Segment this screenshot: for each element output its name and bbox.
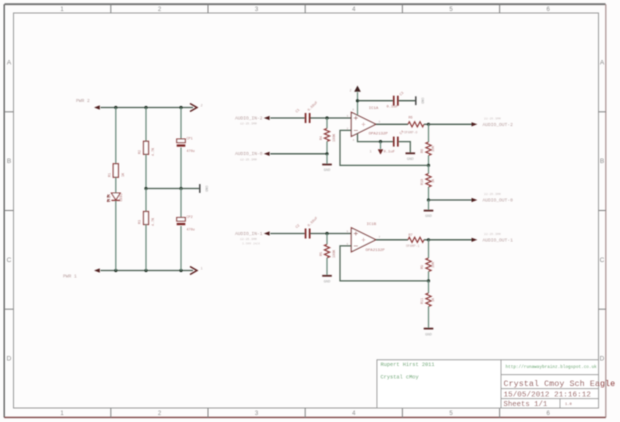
wire LED1 to negative rail [115,201,117,271]
wire bias node B to R5 [326,234,328,245]
svg-text:1: 1 [379,121,381,124]
wire feedback A to -input [340,130,429,165]
wire input A to C1 [270,117,304,119]
svg-text:AUDIO_OUT-0: AUDIO_OUT-0 [483,198,514,204]
svg-text:1: 1 [201,268,203,272]
junction V+ bypass tap [356,99,359,102]
junction output node B [427,238,430,241]
svg-text:R3: R3 [139,220,143,224]
wire R3 to negative rail [145,225,147,271]
resistor R1 [109,164,127,178]
wire feedback B to -input [340,246,429,281]
ground GND divider B [424,329,434,338]
wire bias node to R4 [326,118,328,128]
svg-text:R8: R8 [421,149,425,153]
ground GND divider A [424,211,434,220]
ground GND input B [322,276,332,285]
wire virtual ground node to CP2 [180,189,182,218]
svg-text:R1: R1 [109,173,113,177]
svg-text:470u: 470u [187,150,195,154]
capacitor CP2 470u [177,216,195,233]
svg-text:22-25.3MM: 22-25.3MM [484,232,501,236]
net label PWR 1 (negative rail) [63,268,100,279]
capacitor C1 0.68uF [295,101,319,123]
svg-text:Crystal Cmoy Sch Eagle: Crystal Cmoy Sch Eagle [504,379,616,389]
junction input B bias node [325,232,328,235]
wire CP1 branch upper [180,108,182,140]
junction output node A [427,123,430,126]
wire op-amp A V- pin down [358,133,393,141]
wire C2 to op-amp B +input [310,233,351,235]
svg-text:7: 7 [379,236,381,239]
svg-text:OPAMP-0: OPAMP-0 [404,130,417,134]
ground VGND bypass A [416,96,424,105]
svg-text:2: 2 [201,105,203,109]
svg-text:R11: R11 [421,298,425,304]
svg-text:B: B [7,158,11,165]
wire op-amp B output [376,239,408,241]
svg-text:1: 1 [370,150,372,154]
resistor R7 47R (output B) [408,234,424,242]
resistor R11 1K (gain B) [421,293,436,307]
capacitor CP1 470u [177,138,195,155]
resistor R6 47R (output A) [408,116,424,127]
op-amp IC1B OPA2132P [351,223,385,253]
op-amp IC1A OPA2132P [351,107,388,137]
svg-text:LED1: LED1 [120,193,124,201]
wire R6 to output node A [424,123,429,125]
net label AUDIO_OUT-0 [472,192,514,204]
wire output node A down [428,124,430,142]
wire virtual ground rail to GND symbol [146,188,199,190]
svg-text:GND: GND [420,98,424,104]
junction negative rail / divider branch [144,269,147,272]
junction negative rail / CP2 branch [179,269,182,272]
resistor R2 [139,141,156,156]
svg-text:R6: R6 [409,116,413,120]
wire R7 to output node B [424,239,429,241]
wire virtual ground node to R3 [145,189,147,212]
svg-text:4: 4 [353,139,355,142]
wire divider branch upper [145,108,147,142]
wire CP2 to negative rail [180,226,182,271]
ground GND input A [322,165,332,174]
svg-text:AUDIO_IN-1: AUDIO_IN-1 [235,231,263,237]
svg-text:3.5MM JACK: 3.5MM JACK [242,243,260,246]
wire R2 to virtual ground node [145,154,147,188]
junction positive rail / CP1 branch [179,106,182,109]
supply arrow net 1 (V-) [370,150,383,155]
svg-text:OPAMP-1: OPAMP-1 [406,244,419,248]
svg-text:22-25.3MM: 22-25.3MM [484,116,501,120]
wire ground node A stub [428,200,430,210]
svg-text:15/05/2012 21:16:12: 15/05/2012 21:16:12 [504,391,591,399]
wire R11 to ground B [428,307,430,328]
junction AUDIO_IN-0 / R4 [325,152,328,155]
junction feedback node A [427,164,430,167]
resistor R9 10K (feedback B) [421,258,436,272]
wire feedback node A down [428,165,430,173]
resistor R5 100K [320,244,337,258]
wire V- arrow stub [380,142,382,149]
junction positive rail / divider branch [144,106,147,109]
svg-text:10K: 10K [432,261,436,268]
svg-text:100K: 100K [333,249,337,258]
ground GND bypass A [406,153,416,162]
wire R4 to AUDIO_IN-0 line [326,141,328,153]
net label AUDIO_IN-0 [235,151,270,161]
off-sheet arrow net 2 [190,104,203,112]
svg-text:Rupert Hirst 2011: Rupert Hirst 2011 [381,362,435,368]
wire output A to label [429,123,472,125]
wire LED branch upper [115,108,117,164]
svg-text:R5: R5 [320,252,324,256]
svg-text:D: D [600,355,605,362]
wire C3 to VGND [399,100,416,102]
wire negative supply rail [101,270,194,272]
wire R10 to ground node A [428,187,430,200]
svg-text:B: B [600,158,604,165]
resistor R3 [139,212,156,227]
svg-text:12-25.3MM: 12-25.3MM [240,157,257,161]
junction V- supply tap [379,140,382,143]
svg-text:22-25.3MM: 22-25.3MM [484,192,501,196]
resistor R10 1K (gain A) [421,174,436,188]
svg-text:GND: GND [425,333,433,337]
svg-text:GND: GND [407,158,415,162]
resistor R4 100K [320,128,337,142]
wire output B to label [429,239,472,241]
svg-text:3: 3 [347,115,349,118]
svg-text:CP1: CP1 [187,138,193,142]
svg-text:1.0: 1.0 [565,403,573,407]
svg-text:A: A [600,60,605,67]
net label AUDIO_OUT-1 [472,232,514,244]
junction positive rail / LED branch [114,106,117,109]
svg-text:4.7K: 4.7K [152,147,156,156]
supply arrow net 2 (V+) [350,86,361,93]
svg-text:A: A [7,60,12,67]
svg-text:8: 8 [352,109,354,112]
svg-text:Sheets 1/1: Sheets 1/1 [504,401,548,409]
svg-text:R2: R2 [139,150,143,154]
wire output node B down [428,240,430,258]
svg-text:0.1uF: 0.1uF [384,151,396,155]
title block [377,360,599,408]
svg-text:GND: GND [324,280,332,284]
svg-text:470u: 470u [187,229,195,233]
capacitor C4 0.1uF [384,130,406,154]
junction virtual ground at CP1/CP2 [179,187,182,190]
wire C1 to op-amp A +input [310,117,351,119]
wire R8 to feedback node A [428,156,430,166]
LED LED1 [107,193,124,202]
capacitor C2 0.68uF [295,216,319,238]
svg-text:Crystal cMoy: Crystal cMoy [381,375,419,381]
junction input A bias node [325,116,328,119]
capacitor C3 0.1uF [387,91,406,109]
wire input ground stub [326,154,328,164]
resistor R8 10K (feedback A) [421,142,436,156]
net label AUDIO_IN-2 [235,115,270,125]
svg-text:R9: R9 [421,265,425,269]
wire AUDIO_IN-0 [270,153,327,155]
wire feedback node B down [428,281,430,293]
wire R9 to feedback node B [428,272,430,281]
net label PWR 2 (positive rail) [76,98,100,110]
wire C4 to ground [399,142,411,153]
svg-text:IC1A: IC1A [369,107,379,111]
svg-text:0.1uF: 0.1uF [387,105,399,109]
svg-text:5: 5 [347,231,349,234]
wire op-amp A output [376,123,408,125]
svg-text:2: 2 [350,90,352,94]
svg-text:R7: R7 [409,234,413,238]
wire ground node A to label [429,199,472,201]
wire CP1 to virtual ground node [180,148,182,189]
svg-text:10K: 10K [432,145,436,152]
wire R1 to LED1 [115,177,117,193]
junction ground node A [427,198,430,201]
svg-text:AUDIO_IN-2: AUDIO_IN-2 [235,115,263,121]
svg-text:AUDIO_OUT-1: AUDIO_OUT-1 [483,238,514,244]
svg-text:OPA2132P: OPA2132P [366,249,386,253]
svg-text:IC1B: IC1B [367,223,377,227]
svg-text:C: C [600,257,605,264]
wire positive supply rail [101,107,194,109]
junction virtual ground at divider [144,187,147,190]
svg-text:R4: R4 [320,136,324,140]
svg-text:C: C [7,257,12,264]
svg-text:GND: GND [425,215,433,219]
svg-text:CP2: CP2 [187,216,193,220]
wire op-amp A V+ pin up [357,92,359,115]
svg-text:100K: 100K [333,133,337,142]
svg-text:GND: GND [324,169,332,173]
off-sheet arrow net 1 [190,267,203,275]
svg-text:R10: R10 [421,179,425,185]
svg-text:GND: GND [204,186,208,192]
net label AUDIO_IN-1 [235,231,270,246]
svg-text:12-25.3MM: 12-25.3MM [240,237,257,241]
junction feedback node B [427,279,430,282]
svg-text:PWR 2: PWR 2 [76,98,90,104]
wire input B to C2 [270,233,304,235]
ground VGND power section [200,184,208,193]
svg-text:http://runawaybrainz.blogspot.: http://runawaybrainz.blogspot.co.uk [506,365,598,370]
svg-text:OPA2132P: OPA2132P [369,133,389,137]
junction negative rail / LED branch [114,269,117,272]
svg-text:4.7K: 4.7K [152,217,156,226]
svg-text:D: D [7,355,12,362]
svg-text:AUDIO_IN-0: AUDIO_IN-0 [235,151,263,157]
svg-text:PWR 1: PWR 1 [63,274,77,280]
wire V+ to C3 [358,100,393,102]
svg-text:AUDIO_OUT-2: AUDIO_OUT-2 [483,122,514,128]
net label AUDIO_OUT-2 [472,116,514,128]
svg-text:12-25.3MM: 12-25.3MM [240,122,257,126]
wire R5 to ground [326,258,328,275]
